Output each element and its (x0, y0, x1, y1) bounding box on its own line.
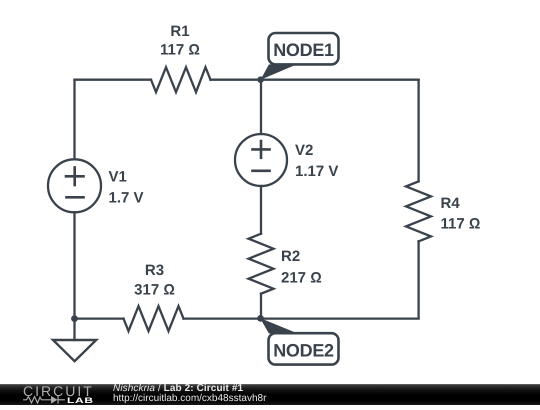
svg-text:NODE1: NODE1 (273, 40, 334, 60)
value label V1: 1.7 V (109, 190, 144, 207)
wire top rail right (R1 to right corner) (211, 79, 419, 81)
svg-text:217 Ω: 217 Ω (281, 270, 322, 287)
footer bar (0, 384, 540, 405)
wire V2 to R2 (260, 186, 262, 234)
svg-text:R3: R3 (145, 262, 164, 279)
voltage source V2 (235, 134, 287, 186)
V1 polarity marks (+/-) (66, 168, 84, 198)
NODE1 pointer wedge (261, 64, 297, 79)
svg-text:R2: R2 (281, 248, 300, 265)
designator label R2 (281, 248, 300, 265)
svg-text:V1: V1 (109, 169, 127, 186)
resistor R1 (151, 67, 211, 92)
ground lead (73, 319, 75, 340)
V2 polarity marks (+/-) (253, 141, 270, 171)
designator label V1 (109, 169, 127, 186)
svg-text:R4: R4 (441, 195, 461, 212)
NODE2 pointer wedge (260, 318, 298, 334)
ground symbol (53, 340, 96, 361)
svg-text:V2: V2 (295, 142, 313, 159)
wire bottom rail right (R3 to right corner) (184, 317, 419, 319)
svg-text:NODE2: NODE2 (273, 340, 334, 360)
designator label R1 (170, 23, 189, 40)
resistor R2 (249, 234, 274, 294)
CircuitLab logo (21, 384, 101, 405)
value label R4: 117 ohm (441, 216, 481, 233)
wire right side upper (corner to R4) (417, 80, 419, 182)
value label R3: 317 ohm (134, 282, 175, 299)
wire R2 to NODE2 (260, 294, 262, 319)
node junction dot NODE2 (257, 315, 264, 322)
voltage source V1 (48, 159, 101, 212)
NODE2 label box (269, 333, 339, 364)
designator label R3 (145, 262, 164, 279)
svg-text:117 Ω: 117 Ω (160, 42, 200, 59)
wire bottom rail left (ground node to R3) (75, 317, 124, 319)
value label R2: 217 ohm (281, 270, 322, 287)
node junction dot ground (71, 315, 78, 322)
wire top rail left (corner to R1) (75, 79, 152, 81)
svg-text:117 Ω: 117 Ω (441, 216, 481, 233)
designator label V2 (295, 142, 313, 159)
svg-text:317 Ω: 317 Ω (134, 282, 175, 299)
footer metadata text (113, 384, 266, 405)
NODE1 label box (269, 33, 339, 64)
node junction dot NODE1 (257, 76, 264, 83)
wire right side lower (R4 to bottom rail) (417, 241, 419, 318)
value label V2: 1.17 V (295, 163, 338, 180)
resistor R4 (406, 181, 431, 241)
resistor R3 (124, 306, 184, 331)
wire V1 to ground node (73, 212, 75, 318)
svg-text:1.17 V: 1.17 V (295, 163, 338, 180)
value label R1: 117 ohm (160, 42, 200, 59)
wire top-left vertical (V1 top to top rail) (73, 80, 75, 160)
svg-text:R1: R1 (170, 23, 189, 40)
svg-text:1.7 V: 1.7 V (109, 190, 144, 207)
wire NODE1 to V2 (260, 80, 262, 134)
designator label R4 (441, 195, 461, 212)
